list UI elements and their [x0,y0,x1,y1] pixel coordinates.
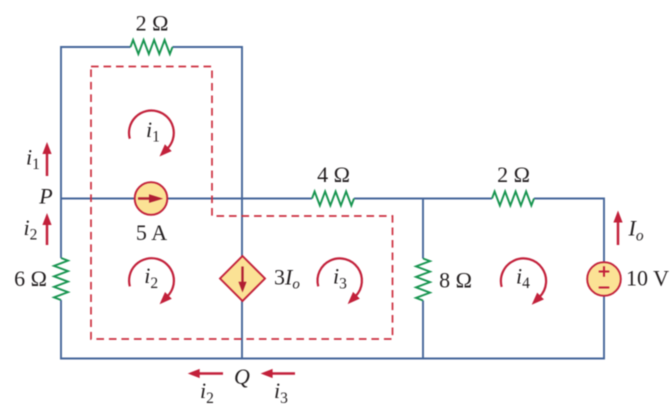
wire middle horizontal [61,198,604,200]
branch arrow i2 up [42,213,51,245]
wire left vertical upper [60,46,62,258]
wire 8ohm vertical branch [422,199,424,359]
svg-text:i2: i2 [144,263,158,292]
mesh current arc i2 [129,258,174,296]
svg-text:10 V: 10 V [626,266,669,291]
svg-text:5 A: 5 A [136,220,167,245]
mesh current arc i1 [129,111,174,149]
wire left vertical lower [60,300,62,359]
svg-text:i1: i1 [146,117,160,146]
svg-text:Io: Io [628,216,644,245]
wire middle vertical branch [241,46,243,359]
svg-text:3Io: 3Io [274,264,300,292]
resistor 4ohm middle [312,192,354,206]
mesh current arc i3 [318,258,362,296]
svg-text:i3: i3 [274,378,288,407]
voltage source 10V [587,262,621,296]
bottom arrow i2 left [188,369,223,378]
dependent source 3Io diamond [220,256,265,301]
svg-text:i4: i4 [516,264,530,293]
current source 5A [135,182,168,215]
resistor 8ohm [416,259,430,301]
svg-text:i2: i2 [200,378,214,407]
svg-text:i1: i1 [26,145,40,174]
wire right vertical [603,198,605,359]
resistor 2ohm top [131,40,173,54]
svg-text:6 Ω: 6 Ω [14,266,47,291]
svg-text:P: P [38,184,52,209]
svg-text:2 Ω: 2 Ω [497,162,530,187]
wire top horizontal right segment [173,46,243,48]
resistor 2ohm right [492,192,534,206]
resistor 6ohm left [54,258,68,300]
svg-text:2 Ω: 2 Ω [136,11,169,36]
svg-text:i2: i2 [24,215,38,244]
svg-text:4 Ω: 4 Ω [317,162,350,187]
svg-text:8 Ω: 8 Ω [439,268,472,293]
supermesh dashed boundary [91,67,393,340]
mesh current arc i4 [501,258,546,297]
bottom arrow i3 left [261,369,295,378]
wire bottom horizontal [60,358,605,360]
svg-text:Q: Q [234,364,250,389]
branch arrow i1 up [42,142,51,176]
svg-text:i3: i3 [333,264,347,293]
branch arrow Io up [613,211,622,246]
wire top horizontal left segment [61,46,131,48]
